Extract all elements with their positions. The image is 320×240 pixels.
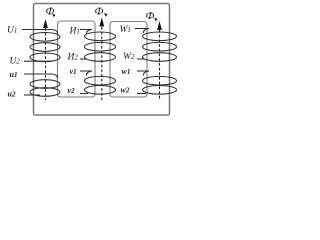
svg-text:W1: W1 [120,25,131,35]
svg-text:u1: u1 [10,70,18,79]
svg-text:Ф: Ф [95,6,104,18]
svg-text:w1: w1 [122,67,131,76]
svg-text:W2: W2 [123,52,135,62]
svg-text:v1: v1 [70,67,77,76]
svg-text:U1: U1 [7,26,17,36]
svg-text:Ф: Ф [146,10,155,22]
svg-text:u2: u2 [8,90,16,99]
svg-text:v2: v2 [68,86,76,95]
svg-text:И2: И2 [67,53,79,63]
svg-text:w2: w2 [121,86,130,95]
svg-text:И1: И1 [69,27,80,37]
svg-text:U2: U2 [10,57,21,67]
